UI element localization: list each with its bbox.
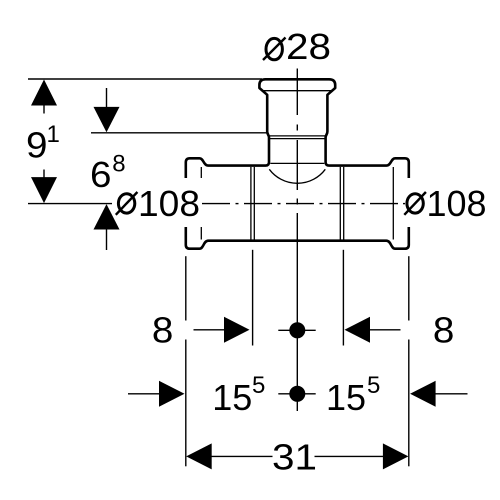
extension line right socket depth (x=343.4) [342,250,344,346]
arrowhead 31 right (points right) [383,443,409,469]
tee fitting outline: bottom half [186,226,409,249]
tee fitting outline: top half [186,79,409,248]
halo left diameter label [112,178,202,227]
extension line B (socket depth of branch, 6.8 level) [91,132,267,134]
label d108 right diameter symbol [404,192,426,215]
svg-text:6: 6 [90,154,112,195]
tail of 9.1 top arrow [43,106,45,114]
vertical centerline dash-dot through branch [296,69,298,412]
extension line left end face (x=185.8) with break at 8-dim level [185,256,187,320]
arrowhead 9.1 up [31,80,57,106]
extension line left socket depth (x=252.6) [252,250,254,346]
arrowhead 8 right (points left) [345,317,371,343]
extension line A (top, from collar top to left) [28,78,262,80]
label d28 diameter symbol [263,38,286,61]
svg-text:8: 8 [112,151,125,178]
bore view line at junction [270,162,324,164]
svg-text:5: 5 [252,372,265,399]
branch socket depth double lines [269,135,326,137]
stub at dot 1 [278,329,315,331]
tail of 9.1 bottom arrow [43,170,45,178]
extension line right end face (x=408.8) with break at 8-dim level [408,256,410,320]
arrowhead 31 left (points left) [186,443,212,469]
tail of 6.8 bottom arrow [106,228,108,250]
arrowhead 6.8 up (below centerline) [94,204,120,229]
thin internal lines of fitting [201,91,393,240]
svg-text:31: 31 [272,437,317,478]
dimension line 31 right part [315,455,384,457]
tail of 6.8 top arrow [106,88,108,110]
extension line C (centerline level at far left) [28,203,114,205]
svg-text:8: 8 [433,310,455,351]
right socket depth double vertical lines [339,167,341,240]
arrowhead 15.5 left (points right) [159,381,185,407]
svg-text:28: 28 [286,26,331,67]
svg-text:108: 108 [138,183,200,224]
horizontal centerline dash-dot through body [202,203,406,205]
branch collar inner lip [262,90,332,92]
svg-text:5: 5 [367,372,380,399]
reference dot 2 (center, 15.5 level) [289,386,305,402]
left socket depth double vertical lines [250,167,252,240]
reference dot 1 (center, 8 level) [289,322,305,338]
left collar inner lip vertical [200,167,202,240]
svg-text:9: 9 [26,125,48,166]
arrowhead 8 left (points right) [224,317,250,343]
label d108 left diameter symbol [116,192,138,215]
dimension line 15.5 left tail [128,393,160,395]
saddle arc [269,169,325,183]
svg-text:108: 108 [427,183,487,224]
dimension line 31 left part [211,455,273,457]
text halo boxes [112,178,490,227]
svg-text:8: 8 [152,310,174,351]
svg-text:15: 15 [212,377,252,418]
arrowhead 6.8 down (above line B) [94,107,120,132]
dimension line 15.5 right tail [436,393,468,395]
svg-text:1: 1 [47,121,60,148]
right collar inner lip vertical [392,167,394,240]
halo right diameter label [405,178,490,227]
svg-text:15: 15 [326,377,366,418]
stub at dot 2 [278,393,315,395]
dimension line 8 left [194,329,225,331]
arrowhead 9.1 down [31,177,57,203]
arrowhead 15.5 right (points left) [410,381,436,407]
dimension line 8 right [370,329,401,331]
